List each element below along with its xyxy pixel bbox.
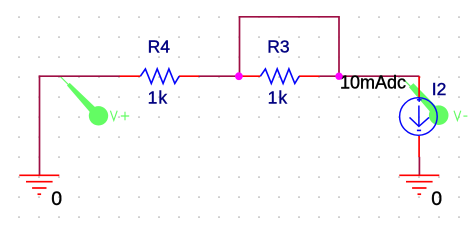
ground left <box>19 175 59 194</box>
wire R4 to node A <box>199 75 241 77</box>
current source I2 <box>400 77 438 157</box>
svg-text:1k: 1k <box>268 87 288 107</box>
svg-text:1k: 1k <box>148 87 168 107</box>
voltage probe V+ <box>60 77 108 126</box>
svg-text:10mAdc: 10mAdc <box>340 73 406 93</box>
wire left horizontal to R4 <box>39 75 120 77</box>
wire I2 bottom to ground <box>418 157 420 175</box>
probe label V+ <box>110 111 129 121</box>
voltage probe V- <box>403 79 449 125</box>
svg-text:R3: R3 <box>267 37 289 57</box>
node B junction dot <box>335 73 342 80</box>
svg-text:R4: R4 <box>148 37 171 57</box>
wire loop above R3 <box>240 17 340 76</box>
svg-text:0: 0 <box>431 188 442 210</box>
wire R3 to I2 <box>319 75 419 77</box>
ground right <box>399 175 439 194</box>
resistor R3 <box>240 69 320 84</box>
wire left vertical <box>39 75 41 175</box>
probe label V- <box>454 111 467 121</box>
resistor R4 <box>120 69 199 84</box>
svg-text:0: 0 <box>51 188 62 210</box>
svg-text:I2: I2 <box>432 79 447 99</box>
node A junction dot <box>235 72 243 80</box>
wire I2 top pin corner <box>418 76 420 78</box>
